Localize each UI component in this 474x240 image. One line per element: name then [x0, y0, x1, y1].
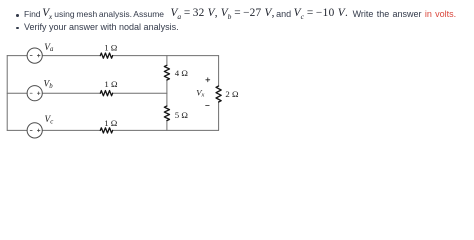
wire: right vertical (top lead to 2-ohm) — [218, 56, 220, 86]
wire: right vertical (bottom lead from 2-ohm) — [218, 102, 220, 130]
wire: bottom rail left of source Vc — [7, 129, 27, 131]
resistor 2 ohm (right branch) — [216, 86, 221, 102]
svg-text:5 Ω: 5 Ω — [175, 110, 189, 120]
bullet 1 — [16, 14, 19, 17]
text line 1 run D — [294, 9, 349, 20]
resistor 1 ohm (bottom rail) — [100, 128, 112, 133]
voltage source Vb — [27, 86, 42, 101]
wire: center branch between 4-ohm and middle rail — [166, 80, 168, 106]
svg-text:4 Ω: 4 Ω — [175, 68, 189, 78]
resistor 4 ohm (center branch upper) — [164, 65, 169, 80]
wire: top rail from resistor to right wire — [113, 55, 219, 57]
wire: middle rail from resistor to branch node — [113, 92, 167, 94]
text line 1 run E — [353, 9, 457, 20]
voltage source Va — [27, 48, 42, 63]
text line 2 — [24, 22, 179, 33]
minus sign (Vx polarity) — [206, 105, 210, 107]
wire: top rail from source Va to resistor — [42, 55, 100, 57]
svg-text:1 Ω: 1 Ω — [104, 118, 118, 128]
svg-text:1 Ω: 1 Ω — [104, 43, 118, 53]
svg-text:Vc: Vc — [45, 115, 54, 125]
wire: bottom rail from source Vc to resistor — [42, 129, 100, 131]
resistor 1 ohm (top rail) — [100, 53, 112, 58]
component value and node labels — [44, 43, 239, 128]
bullet 2 — [16, 27, 19, 30]
resistor 5 ohm (center branch lower) — [164, 106, 169, 121]
wire: top rail left of source Va — [7, 55, 27, 57]
plus sign (Vx polarity) — [206, 78, 210, 82]
wire: center branch top lead (node at top rail to 4-ohm) — [166, 56, 168, 66]
svg-text:1 Ω: 1 Ω — [104, 79, 118, 89]
wire: middle rail from source Vb to resistor — [42, 92, 100, 94]
svg-text:Vb: Vb — [44, 80, 54, 90]
svg-text:Va: Va — [44, 43, 54, 53]
wire: middle rail left of source Vb — [7, 92, 27, 94]
voltage source Vc — [27, 123, 42, 138]
resistor 1 ohm (middle rail) — [100, 91, 112, 96]
text line 1 run C (and) — [276, 9, 291, 20]
svg-text:2 Ω: 2 Ω — [225, 89, 239, 99]
wire: center branch bottom lead (5-ohm to bottom rail) — [166, 121, 168, 131]
wire: left vertical bus — [6, 56, 8, 131]
text line 1 run B — [171, 9, 275, 20]
svg-text:Vx: Vx — [196, 87, 204, 98]
text line 1 run A — [24, 9, 164, 20]
wire: bottom rail from resistor to right wire — [113, 129, 219, 131]
